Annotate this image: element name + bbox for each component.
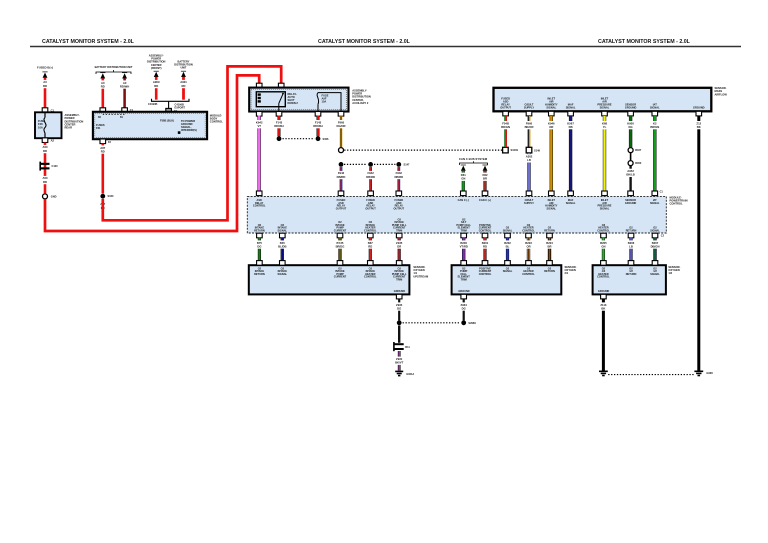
splice S2966 b — [461, 320, 466, 325]
wire K68 YL — [603, 116, 606, 192]
svg-text:BL/DB: BL/DB — [278, 244, 286, 248]
dotted link F960 to MAF feed — [344, 149, 502, 151]
svg-text:DB/RD: DB/RD — [366, 175, 375, 179]
svg-text:RD/WH: RD/WH — [120, 84, 129, 88]
svg-text:F54B: F54B — [502, 121, 509, 125]
svg-text:SIGNAL: SIGNAL — [650, 228, 660, 232]
off-page arrow front feed 2 — [181, 71, 186, 77]
wire K946 OR — [550, 116, 553, 192]
splice bus S2966 — [403, 322, 461, 324]
Y-merge bracket into BCM pin C9 — [152, 99, 190, 109]
PCM top pin text at x=341.0 — [336, 198, 347, 210]
MAF pin text at x=654.8 — [650, 102, 660, 109]
svg-text:TRIM: TRIM — [461, 228, 467, 232]
wire K567 DB — [569, 116, 572, 192]
svg-text:RETURN: RETURN — [544, 269, 555, 273]
internal note text — [181, 119, 197, 132]
off-page arrow CAN C (+) — [482, 165, 487, 171]
svg-text:A0: A0 — [101, 81, 105, 85]
sensor oxygen 2/1 pin text at x=549.5 — [544, 266, 555, 273]
PCM top pin text at x=654.8 — [650, 198, 660, 205]
in-line connector A302 — [526, 147, 532, 153]
sensor oxygen 2/1 pin text at x=485.0 — [479, 266, 492, 276]
splice S147 c — [396, 162, 401, 167]
svg-text:BATTERY DISTRIBUTION UNIT: BATTERY DISTRIBUTION UNIT — [95, 65, 133, 69]
splice S147 b — [368, 162, 373, 167]
PCM top pin text at x=398.8 — [394, 198, 405, 210]
svg-text:INTERIOR(S): INTERIOR(S) — [181, 128, 197, 132]
wire label A901 RD — [180, 80, 187, 88]
PCM top pin at x=398.8 — [396, 191, 402, 196]
connector label C4190B export — [175, 102, 186, 109]
svg-text:F58B (BLK): F58B (BLK) — [160, 118, 174, 122]
wire A0 RD (BCM feed 1) — [102, 78, 105, 108]
relay coil marks — [258, 93, 261, 102]
wire B75 DG to O2 sensor — [258, 238, 261, 262]
wire label A87 RD lower — [100, 202, 106, 210]
splice S006 a — [277, 136, 282, 141]
wire A87 RD routing to ASD relay pin 30 — [103, 66, 281, 220]
svg-text:A50: A50 — [42, 176, 48, 180]
wire F960 BK/OR (half black / half orange) — [528, 116, 529, 147]
svg-text:OUTPUT: OUTPUT — [394, 206, 405, 210]
svg-text:SIGNAL: SIGNAL — [503, 269, 513, 273]
PCM top pin at x=654.8 — [652, 191, 658, 196]
svg-text:BK/VT: BK/VT — [395, 361, 404, 365]
PCM bottom pin text at x=485.0 — [479, 223, 492, 233]
svg-text:RETURN: RETURN — [544, 228, 555, 232]
off-page arrow battery feed 2 — [122, 73, 127, 79]
svg-text:GND: GND — [51, 195, 57, 199]
MAF pin at x=654.8 — [652, 111, 658, 116]
wire F942 DB/RD at x=341.0 — [340, 167, 343, 191]
wire D62 BR CAN C(+) — [483, 171, 486, 192]
wire label A952 BK/LB — [626, 169, 635, 177]
wire BY35 BR/DG to O2 sensor — [338, 238, 341, 262]
svg-text:UNIT: UNIT — [180, 66, 186, 70]
svg-text:SUPPLY: SUPPLY — [524, 105, 534, 109]
wire A0 RD/WH (BCM feed 2) — [123, 78, 126, 108]
ground G938 — [694, 371, 703, 375]
label battery distribution unit 2 — [174, 60, 193, 70]
MAF pin at x=505.6 — [503, 111, 509, 116]
wire label Z235 DR — [396, 240, 403, 248]
wire label B201 RD — [481, 240, 488, 248]
svg-text:VT: VT — [257, 124, 261, 128]
wire K2 BR/GN — [653, 116, 656, 192]
splice bus S147 ab — [344, 163, 367, 165]
brace for CAN C bus — [460, 161, 488, 165]
PCM bottom pin text at x=463.7 — [456, 217, 471, 232]
module label sensor oxygen 1/1 — [413, 265, 429, 278]
PCM top pin text at x=463.3 — [458, 198, 469, 202]
MAF pin text at x=570.6 — [566, 102, 576, 109]
connector label B027 — [635, 148, 642, 152]
PCM bottom pin text at x=340.0 — [334, 220, 347, 232]
module label MAF sensor — [715, 86, 728, 96]
pin 3 (relay box bottom) — [276, 112, 282, 117]
svg-text:C100: C100 — [52, 164, 59, 168]
wire label BY35 BR/DG — [336, 240, 345, 248]
svg-text:K2: K2 — [653, 121, 657, 125]
PCM bottom pin text at x=399.2 — [392, 217, 407, 232]
pin 4 (relay box top) — [278, 83, 284, 88]
svg-text:SIGNAL: SIGNAL — [546, 206, 556, 210]
PCM top pin at x=370.6 — [368, 191, 374, 196]
MAF pin at x=529.0 — [526, 111, 532, 116]
connector label B11 — [405, 345, 410, 349]
fuse value label 15A — [322, 94, 329, 104]
wire label F143 RD/WH b — [313, 120, 322, 128]
wire label B203 OR — [525, 240, 532, 248]
svg-text:BK: BK — [601, 306, 605, 310]
connector label C1 — [660, 189, 664, 193]
PCM bottom pin text at x=507.5 — [503, 226, 513, 233]
svg-text:RD: RD — [368, 244, 372, 248]
svg-text:B45: B45 — [280, 241, 286, 245]
PCM bottom pin at x=507.5 — [505, 233, 511, 238]
wire label A0 RD — [43, 80, 47, 88]
svg-text:A302: A302 — [526, 155, 533, 159]
wire D61 GN CAN C(-) — [462, 171, 465, 192]
PCM top pin at x=604.5 — [602, 191, 608, 196]
sensor mass airflow box — [494, 88, 712, 112]
svg-text:OR: OR — [526, 244, 530, 248]
PCM bottom pin at x=528.5 — [526, 233, 532, 238]
PCM top pin text at x=551.3 — [545, 198, 558, 210]
svg-text:F942: F942 — [367, 171, 374, 175]
pin B1 (BCM top) — [122, 108, 128, 113]
wire Z235 DR to O2 sensor — [398, 238, 401, 262]
svg-text:A0: A0 — [43, 80, 47, 84]
pin number B2 — [98, 117, 102, 119]
sensor oxygen 2/1 top pin at x=507.5 — [505, 261, 511, 266]
pin 2 (relay box top) — [256, 83, 262, 88]
PCM bottom pin at x=631.0 — [628, 233, 634, 238]
svg-text:REAR: REAR — [65, 126, 73, 130]
svg-text:F960: F960 — [338, 120, 345, 124]
svg-text:Z931: Z931 — [396, 357, 403, 361]
ground label G301A — [406, 372, 414, 376]
svg-text:DB: DB — [569, 125, 573, 129]
wire label F960 DG/OR — [336, 120, 345, 128]
connector ring at F960 — [339, 148, 344, 153]
wire B206 LB to O2 sensor — [629, 238, 632, 262]
wire A50 RD — [44, 143, 47, 194]
pin 7 (relay box bottom) — [338, 112, 344, 117]
svg-text:CURRENT: CURRENT — [334, 228, 347, 232]
pin 5 (relay box bottom) — [315, 112, 321, 117]
ground G301A — [395, 371, 403, 375]
node FUSED B(+) label — [37, 65, 53, 69]
sensor oxygen 1/1 pin text at x=370.3 — [364, 266, 377, 278]
wire F54B RD/GN (half green / half red) — [505, 116, 506, 147]
wire A909 RD — [155, 77, 158, 100]
wire label A0 RD/WH — [120, 80, 129, 88]
svg-text:CONTROL: CONTROL — [597, 228, 610, 232]
svg-text:CAN C (-): CAN C (-) — [458, 198, 469, 202]
svg-text:TRIM: TRIM — [396, 277, 402, 281]
splice bus S006 — [283, 138, 315, 140]
svg-text:SIGNAL: SIGNAL — [566, 201, 576, 205]
pin number B1 — [120, 117, 124, 119]
wire A87 RD — [102, 144, 105, 194]
PCM top pin at x=551.3 — [549, 191, 555, 196]
sensor oxygen 1/2 top pin at x=631.0 — [628, 261, 634, 266]
sensor oxygen 1/2 box — [593, 265, 666, 294]
svg-text:S006: S006 — [323, 137, 330, 141]
svg-text:GROUND: GROUND — [625, 105, 637, 109]
svg-text:K946: K946 — [548, 121, 555, 125]
svg-text:10A: 10A — [38, 125, 43, 129]
PCM top pin text at x=529.0 — [524, 198, 534, 205]
svg-text:DG/OR: DG/OR — [336, 124, 345, 128]
svg-text:RD: RD — [101, 149, 105, 153]
svg-text:B201: B201 — [482, 241, 489, 245]
svg-text:RETURN: RETURN — [626, 228, 637, 232]
svg-text:B027: B027 — [635, 148, 642, 152]
header title center — [318, 39, 411, 45]
svg-text:OUTPUT: OUTPUT — [500, 105, 511, 109]
PCM top pin text at x=604.5 — [597, 198, 611, 210]
pin label C1 — [51, 108, 55, 112]
MAF pin text at x=604.5 — [597, 97, 612, 110]
svg-text:S147: S147 — [404, 163, 411, 167]
sensor oxygen 1/2 pin text at x=655.0 — [650, 266, 660, 276]
svg-text:C1: C1 — [660, 189, 664, 193]
svg-text:OUTPUT: OUTPUT — [365, 206, 376, 210]
ground bus dotted link — [608, 374, 694, 376]
wire A901 RD — [182, 77, 185, 100]
svg-text:GROUND: GROUND — [458, 289, 469, 293]
svg-text:CONTROL: CONTROL — [522, 272, 535, 276]
svg-text:CATALYST MONITOR SYSTEM - 2.0L: CATALYST MONITOR SYSTEM - 2.0L — [42, 39, 135, 45]
PCM bottom pin at x=603.5 — [601, 233, 607, 238]
svg-text:G301A: G301A — [406, 372, 414, 376]
svg-text:F61: F61 — [96, 126, 101, 130]
wire B207 DB/GN to O2 sensor — [653, 238, 656, 262]
wire label B202 BL — [504, 240, 511, 248]
sensor oxygen 1/1 pin text at x=259.4 — [254, 266, 265, 276]
splice S2966 a — [397, 320, 402, 325]
svg-text:RD/WH: RD/WH — [274, 124, 283, 128]
connector label C2 right of PCM bottom edge — [661, 235, 665, 238]
svg-text:SIGNAL: SIGNAL — [566, 105, 576, 109]
PCM bottom pin at x=655.0 — [652, 233, 658, 238]
svg-text:DR: DR — [397, 244, 401, 248]
wire B203 OR to O2 sensor — [527, 238, 530, 262]
svg-text:DB/GN: DB/GN — [651, 244, 660, 248]
wire label D62 BR — [482, 173, 488, 181]
pin label F2 — [108, 140, 112, 144]
sensor oxygen 2/1 GROUND text — [458, 289, 469, 293]
svg-text:SUPPLY: SUPPLY — [524, 201, 534, 205]
connector eyelet S115 — [43, 194, 48, 199]
svg-text:DB/RD: DB/RD — [394, 175, 403, 179]
wire label B75 DG — [257, 240, 263, 248]
MAF pin text at x=505.6 — [500, 97, 511, 110]
svg-text:Z934: Z934 — [461, 303, 468, 307]
MAF pin text at x=630.6 — [625, 102, 637, 109]
svg-text:B203: B203 — [525, 241, 532, 245]
sensor oxygen 2/1 pin text at x=463.7 — [458, 266, 471, 281]
wire Z931 BK/VT — [398, 351, 401, 371]
module label sensor oxygen 2/1 — [565, 265, 577, 275]
wire label K900 DG — [627, 121, 634, 129]
svg-text:UPSTREAM: UPSTREAM — [413, 274, 429, 278]
PCM bottom pin at x=340.0 — [337, 233, 343, 238]
svg-text:B207: B207 — [652, 241, 659, 245]
module label PDC rear — [65, 113, 84, 129]
wire B201 RD to O2 sensor — [483, 238, 486, 262]
svg-text:A952: A952 — [627, 169, 634, 173]
fuse element inside PDC — [317, 93, 341, 112]
svg-text:GROUND: GROUND — [598, 289, 609, 293]
sensor oxygen 1/2 top pin at x=603.4 — [601, 261, 607, 266]
svg-text:SIGNAL: SIGNAL — [277, 228, 287, 232]
label PDC front — [147, 54, 166, 70]
svg-text:CONTROL: CONTROL — [364, 228, 377, 232]
svg-text:S1049: S1049 — [511, 148, 519, 152]
MAF pin at x=604.5 — [602, 111, 608, 116]
brace for battery distribution unit — [96, 70, 131, 74]
svg-text:F143: F143 — [276, 120, 283, 124]
svg-text:B67: B67 — [368, 241, 374, 245]
svg-text:GROUND: GROUND — [394, 289, 405, 293]
wire F942 DB/RD at x=370.6 — [369, 167, 372, 191]
svg-text:AIRFLOW: AIRFLOW — [715, 92, 728, 96]
svg-text:BK: BK — [697, 125, 701, 129]
svg-text:RD: RD — [483, 244, 487, 248]
link B027 to B060 — [630, 153, 632, 160]
wire Z934 ground lead a — [398, 299, 400, 321]
PCM top pin at x=529.0 — [526, 191, 532, 196]
svg-text:RD: RD — [43, 180, 47, 184]
svg-text:CONTROL: CONTROL — [479, 228, 492, 232]
svg-text:Z12: Z12 — [696, 121, 701, 125]
svg-text:YL: YL — [603, 125, 607, 129]
PCM bottom pin at x=463.7 — [461, 233, 467, 238]
PCM bottom pin at x=370.3 — [368, 233, 374, 238]
svg-text:A87: A87 — [100, 146, 106, 150]
ASD relay / PDC box — [249, 88, 348, 112]
svg-text:SIGNAL: SIGNAL — [546, 105, 556, 109]
wire B67 RD to O2 sensor — [369, 238, 372, 262]
PCM top pin at x=463.3 — [461, 191, 467, 196]
off-page arrow CAN C (-) — [461, 165, 466, 171]
wire label A909 RD — [153, 80, 160, 88]
sensor oxygen 1/1 top pin at x=370.3 — [368, 261, 374, 266]
svg-text:DB/RD: DB/RD — [337, 175, 346, 179]
off-page arrow to fused B+ — [42, 72, 47, 78]
svg-text:F942: F942 — [396, 171, 403, 175]
splice label S040 — [108, 194, 115, 198]
sensor oxygen 1/1 bottom pin — [396, 294, 402, 299]
svg-text:1/2: 1/2 — [668, 271, 672, 275]
svg-text:CONTROL: CONTROL — [210, 120, 223, 124]
wire label B200 VT/RD — [459, 240, 468, 248]
splice bus S147 bc — [374, 163, 395, 165]
svg-text:CONTROL: CONTROL — [522, 228, 535, 232]
PCM top pin text at x=570.6 — [566, 198, 576, 205]
svg-text:B75: B75 — [257, 241, 263, 245]
svg-text:SIGNAL: SIGNAL — [650, 272, 660, 276]
svg-text:EXPORT: EXPORT — [175, 105, 186, 109]
PCM bottom pin text at x=528.5 — [522, 223, 535, 233]
svg-text:BR/DG: BR/DG — [336, 244, 345, 248]
header title right — [598, 39, 691, 45]
svg-text:GN: GN — [601, 244, 605, 248]
wire B45 BL/DB to O2 sensor — [281, 238, 284, 262]
svg-text:BR: BR — [548, 244, 552, 248]
wire label B45 BL/DB — [278, 240, 287, 248]
sensor oxygen 2/1 top pin at x=463.7 — [461, 261, 467, 266]
PCM top pin at x=570.6 — [568, 191, 574, 196]
connector ring B027 — [628, 148, 633, 153]
relay K1 sub-box — [256, 92, 285, 107]
in-line connector square S1049 — [503, 147, 509, 153]
PCM bottom pin text at x=282.3 — [277, 223, 287, 233]
wire A302 LB to PCM — [527, 153, 530, 192]
svg-text:DG: DG — [462, 306, 466, 310]
svg-text:C4190B: C4190B — [148, 102, 158, 106]
PCM bottom pin at x=259.4 — [257, 233, 263, 238]
wire Z934 ground lead b — [463, 299, 465, 321]
ground G301 left — [599, 371, 608, 375]
svg-text:BL: BL — [506, 244, 510, 248]
svg-text:FUSED B(+): FUSED B(+) — [37, 65, 53, 69]
sensor oxygen 1/1 pin text at x=282.3 — [277, 266, 287, 276]
svg-text:SIGNAL: SIGNAL — [277, 272, 287, 276]
header title left — [42, 39, 135, 45]
connector label C4190B — [148, 102, 158, 106]
sensor oxygen 2/1 bottom pin — [461, 294, 467, 299]
splice label S2966 — [468, 321, 476, 325]
connector label S1049 — [511, 148, 519, 152]
svg-text:S040: S040 — [108, 194, 115, 198]
PCM bottom pin text at x=603.5 — [597, 223, 610, 233]
svg-text:CONTROL: CONTROL — [364, 275, 377, 279]
svg-text:S2966: S2966 — [468, 321, 476, 325]
module powertrain control (PCM) box — [247, 196, 666, 233]
MAF pin text at x=698.8 — [693, 105, 705, 109]
svg-text:BY35: BY35 — [337, 241, 344, 245]
svg-text:RETURN: RETURN — [626, 272, 637, 276]
svg-text:D61: D61 — [461, 173, 467, 177]
svg-text:SIGNAL: SIGNAL — [650, 105, 660, 109]
svg-text:2/1: 2/1 — [565, 271, 569, 275]
sensor oxygen 1/1 top pin at x=282.3 — [280, 261, 286, 266]
pin C9 (BCM top) — [166, 108, 172, 113]
module label PDC auxiliary — [352, 89, 371, 105]
svg-text:K942: K942 — [256, 120, 263, 124]
svg-text:S149: S149 — [534, 149, 541, 153]
svg-text:LB: LB — [527, 158, 531, 162]
svg-text:CONTROL: CONTROL — [670, 202, 683, 206]
PCM top pin text at x=485.0 — [479, 198, 491, 202]
wire B202 BL to O2 sensor — [506, 238, 509, 262]
module label PCM — [670, 196, 688, 206]
svg-text:AUXILIARY 2: AUXILIARY 2 — [352, 101, 369, 105]
fuse element F70 — [44, 112, 46, 138]
wire K900 DG — [629, 116, 632, 147]
sensor oxygen 2/1 top pin at x=485.0 — [482, 261, 488, 266]
wire label A302 LB overlay — [525, 154, 532, 162]
MAF pin at x=698.8 — [696, 111, 702, 116]
internal node square — [178, 131, 181, 134]
wire label K942 VT — [256, 120, 263, 128]
pin A2 (PDC rear bottom) — [42, 138, 48, 143]
